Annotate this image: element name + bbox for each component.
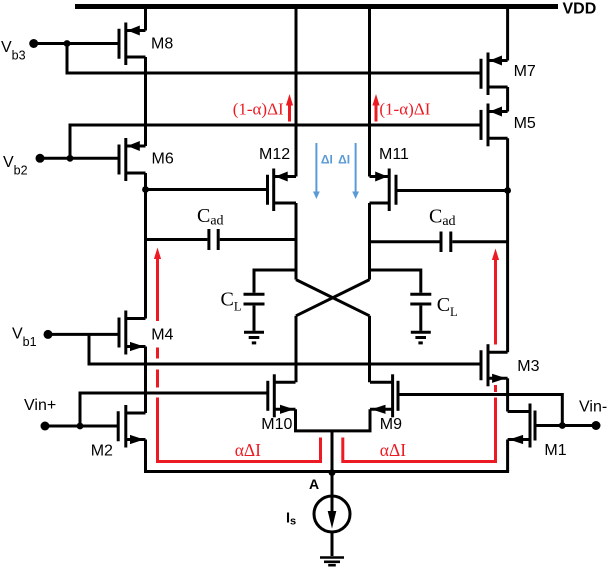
wire xyxy=(144,347,147,414)
svg-text:Vb3: Vb3 xyxy=(1,39,26,63)
svg-text:Vb1: Vb1 xyxy=(12,326,37,350)
wire M6 drain to M12 gate xyxy=(146,188,268,191)
svg-text:M10: M10 xyxy=(261,416,292,433)
transistor M1 xyxy=(508,404,535,448)
capacitor Cad right xyxy=(370,232,508,253)
svg-text:M11: M11 xyxy=(379,146,409,163)
wire M11 gate to M5 drain xyxy=(396,189,508,192)
red current arrow (1-a)dI right xyxy=(372,94,379,122)
svg-text:Cad: Cad xyxy=(429,206,456,230)
svg-text:CL: CL xyxy=(437,294,458,319)
transistor M9 xyxy=(370,374,398,417)
terminal Vb3 xyxy=(29,39,119,48)
transistor M10 xyxy=(268,374,296,417)
terminal Vb1 xyxy=(44,330,120,339)
terminal Vb2 xyxy=(36,154,120,163)
wire xyxy=(144,57,147,146)
wire bottom rail xyxy=(144,470,509,473)
svg-text:M12: M12 xyxy=(259,146,290,163)
wire cross-coupling xyxy=(296,280,370,316)
svg-text:Is: Is xyxy=(286,510,296,527)
transistor M11 xyxy=(370,169,397,212)
svg-text:M1: M1 xyxy=(544,442,566,459)
svg-text:ΔI: ΔI xyxy=(338,152,350,166)
capacitor CL left xyxy=(244,270,297,331)
svg-text:M6: M6 xyxy=(152,151,174,168)
transistor M12 xyxy=(268,169,297,212)
ground xyxy=(320,558,344,566)
transistor M7 xyxy=(481,53,508,96)
svg-text:A: A xyxy=(309,476,319,492)
transistor M4 xyxy=(119,311,146,355)
wire xyxy=(144,7,147,31)
wire Vin+ to M10 gate xyxy=(80,393,268,426)
red current path right xyxy=(343,249,499,462)
wire xyxy=(295,316,298,383)
wire xyxy=(368,316,371,383)
svg-text:M7: M7 xyxy=(514,63,536,80)
red current arrow (1-a)dI left xyxy=(286,94,293,122)
transistor M6 xyxy=(119,138,146,181)
blue arrow dI right xyxy=(352,143,359,199)
node A dot xyxy=(329,469,336,476)
junction dot xyxy=(67,155,74,162)
wire xyxy=(368,7,371,177)
current source Is xyxy=(314,496,350,556)
wire xyxy=(144,440,147,472)
wire M10/M9 common source xyxy=(296,409,371,431)
transistor M5 xyxy=(481,104,508,147)
wire Vb2 bias line xyxy=(70,125,480,158)
transistor M3 xyxy=(481,344,508,386)
junction dot node M5 drain xyxy=(504,187,511,194)
wire to node A xyxy=(331,431,334,497)
wire xyxy=(506,138,509,352)
svg-text:ΔI: ΔI xyxy=(321,152,333,166)
svg-text:M9: M9 xyxy=(380,416,402,433)
wire xyxy=(368,203,371,280)
wire cross-coupling xyxy=(296,280,370,316)
svg-text:Vin+: Vin+ xyxy=(24,397,56,414)
ground xyxy=(244,332,264,343)
wire Vb1 bias line xyxy=(89,334,480,364)
junction dot xyxy=(77,423,84,430)
junction dot xyxy=(559,422,566,429)
capacitor Cad left xyxy=(146,229,297,250)
terminal Vin- xyxy=(535,421,601,430)
svg-text:M4: M4 xyxy=(151,326,173,343)
wire Vin- to M9 gate xyxy=(398,395,562,426)
wire Vb3 bias line xyxy=(67,44,480,74)
svg-text:αΔI: αΔI xyxy=(235,440,261,460)
svg-text:M3: M3 xyxy=(517,358,539,375)
VDD power rail xyxy=(75,4,558,9)
wire xyxy=(295,203,298,280)
svg-text:M2: M2 xyxy=(91,443,113,460)
ground xyxy=(411,332,431,343)
svg-text:CL: CL xyxy=(221,289,242,314)
capacitor CL right xyxy=(370,270,432,331)
transistor M2 xyxy=(118,405,145,448)
wire xyxy=(506,440,509,472)
svg-text:Vb2: Vb2 xyxy=(3,154,28,178)
blue arrow dI left xyxy=(313,143,320,199)
svg-text:αΔI: αΔI xyxy=(380,440,406,460)
wire xyxy=(506,7,509,61)
transistor M8 xyxy=(119,23,146,66)
svg-text:(1-α)ΔI: (1-α)ΔI xyxy=(233,100,284,119)
wire xyxy=(144,173,147,319)
wire xyxy=(506,87,509,112)
svg-text:VDD: VDD xyxy=(563,1,597,18)
svg-text:(1-α)ΔI: (1-α)ΔI xyxy=(379,100,430,119)
wire xyxy=(295,7,298,177)
svg-text:Vin-: Vin- xyxy=(579,399,607,416)
svg-text:M8: M8 xyxy=(151,36,173,53)
terminal Vin+ xyxy=(41,422,119,431)
wire xyxy=(506,378,509,411)
junction dot node M6 drain xyxy=(142,186,149,193)
red current path left xyxy=(154,248,321,462)
junction dot xyxy=(64,40,71,47)
svg-text:M5: M5 xyxy=(514,115,536,132)
svg-text:Cad: Cad xyxy=(197,205,224,229)
